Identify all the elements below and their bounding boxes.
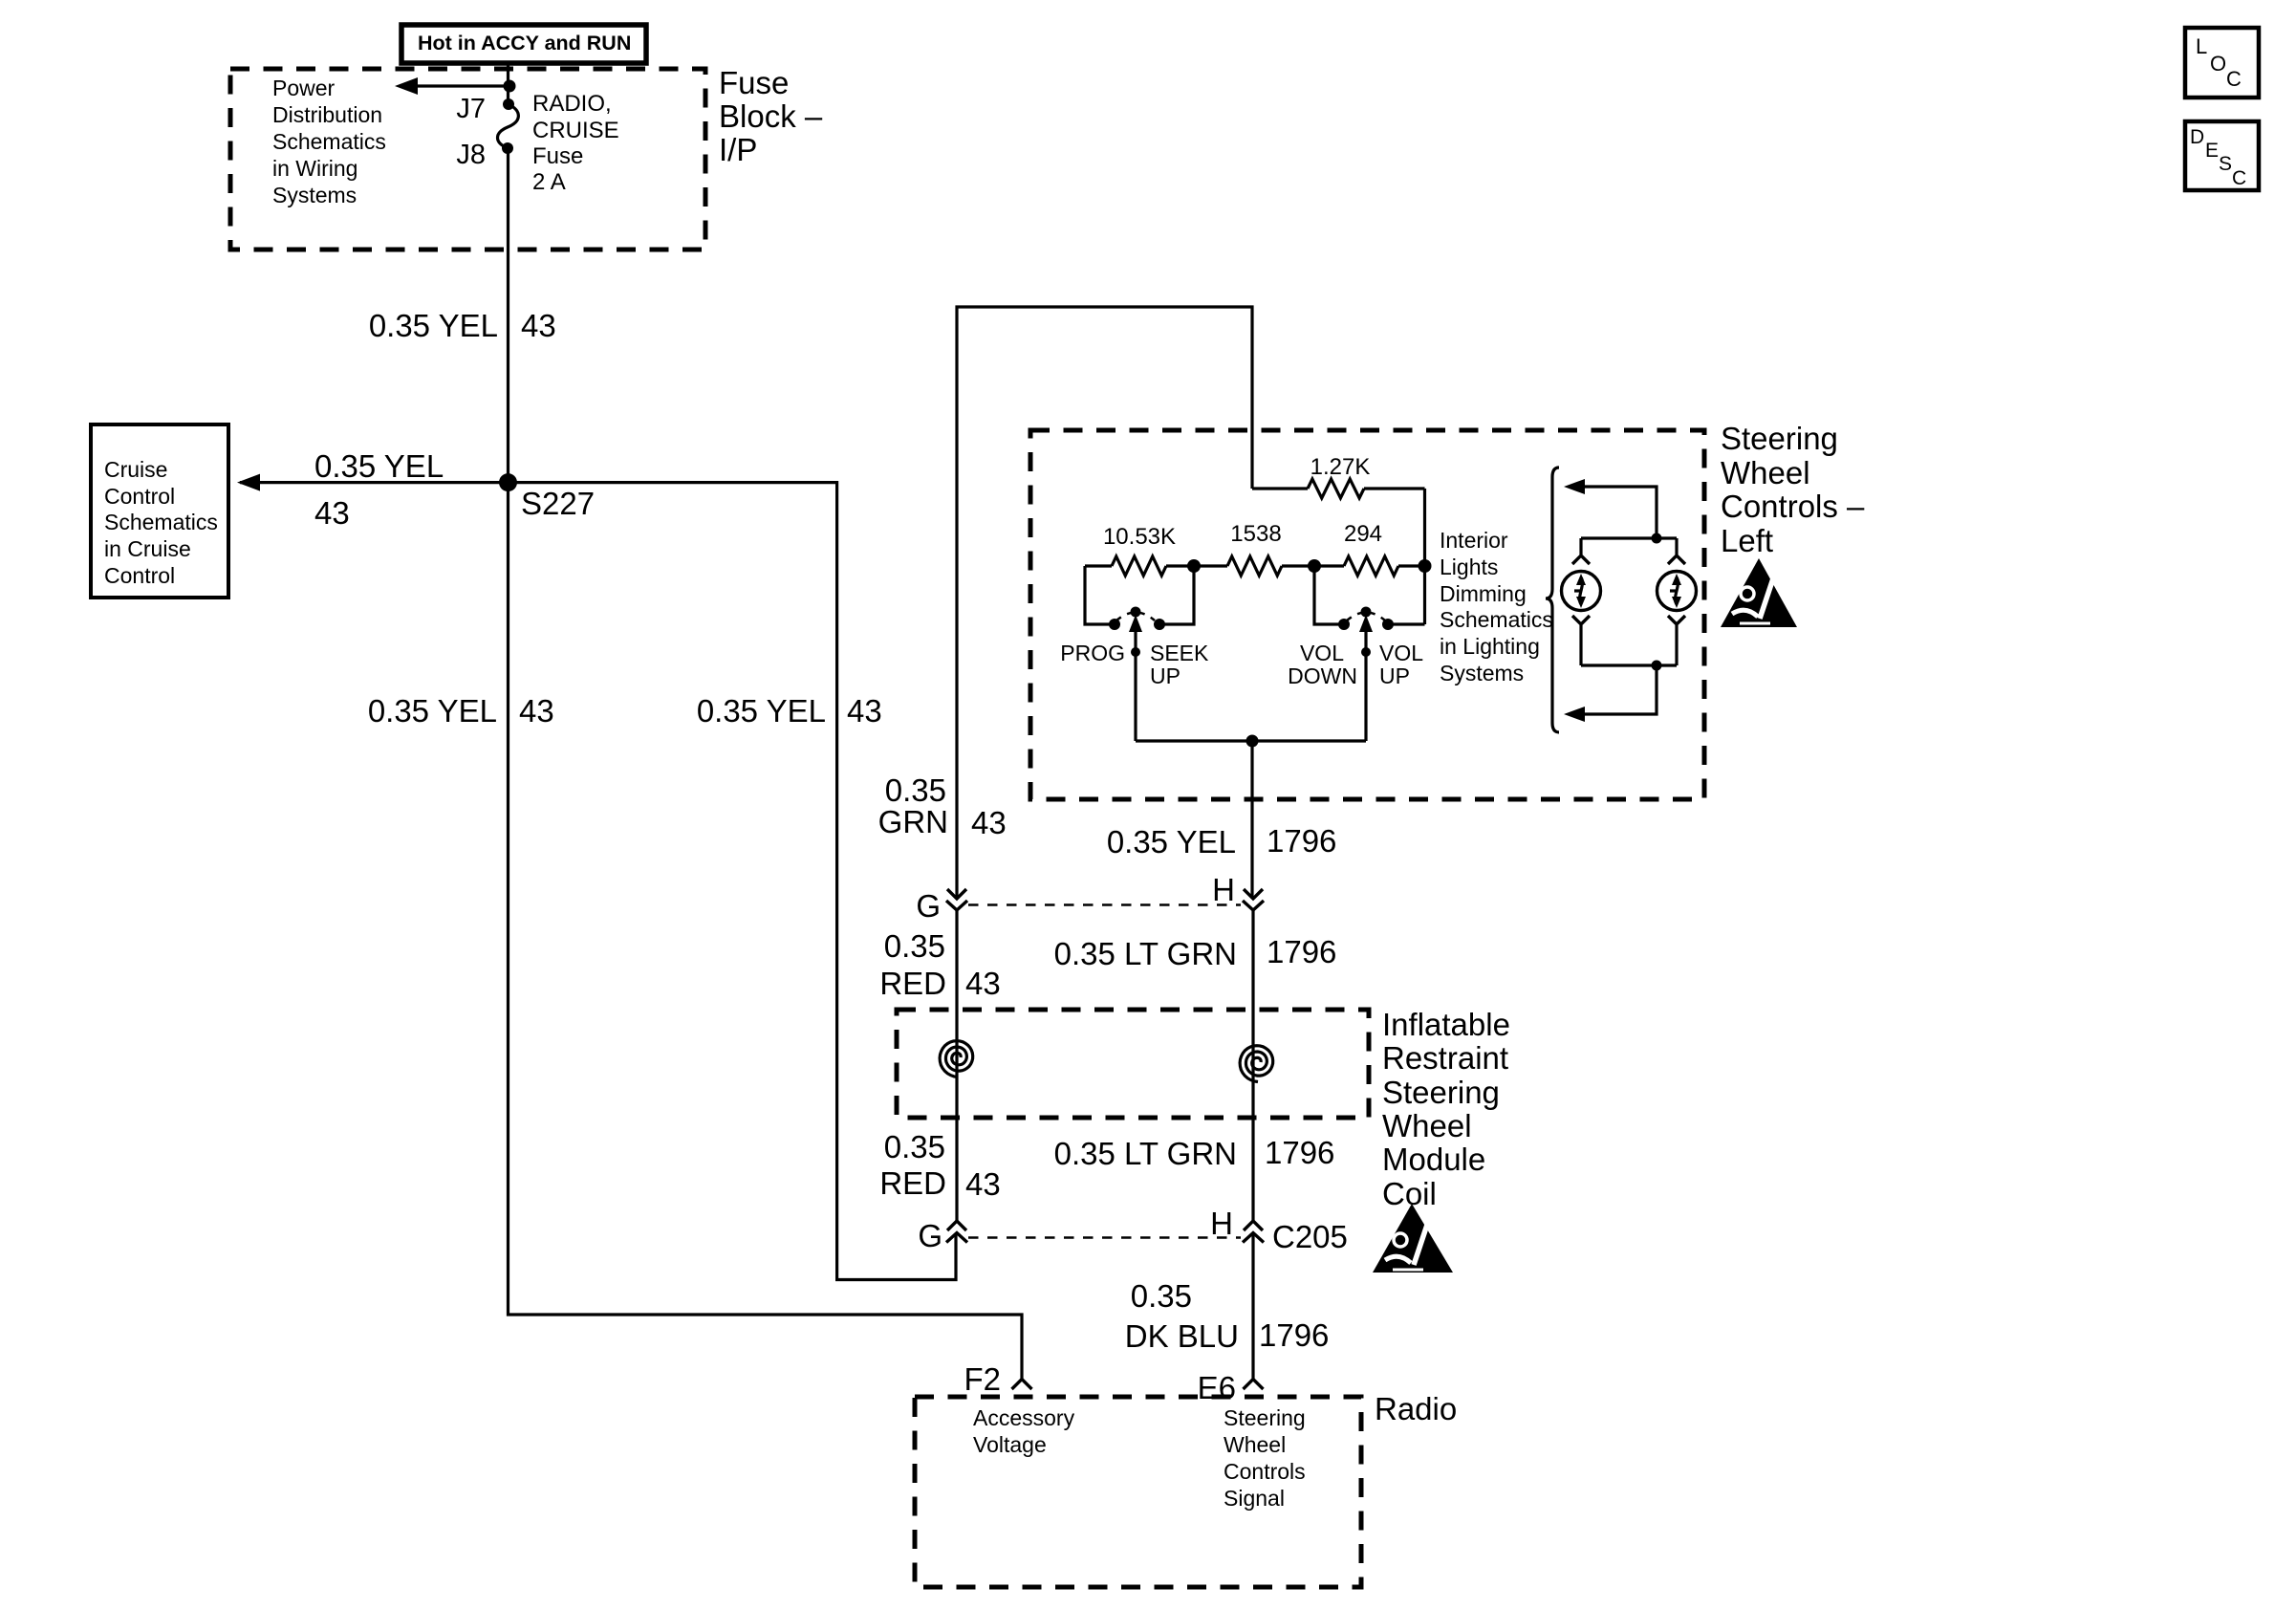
svg-text:Lights: Lights (1440, 555, 1498, 579)
svg-text:Wheel: Wheel (1721, 455, 1810, 490)
svg-text:Distribution: Distribution (272, 102, 382, 127)
svg-text:1796: 1796 (1267, 934, 1336, 969)
svg-text:UP: UP (1150, 664, 1180, 688)
svg-text:Interior: Interior (1440, 528, 1508, 553)
svg-text:43: 43 (971, 805, 1007, 840)
svg-text:Wheel: Wheel (1382, 1108, 1472, 1143)
svg-text:PROG: PROG (1060, 641, 1125, 665)
svg-text:0.35 YEL: 0.35 YEL (697, 693, 826, 729)
svg-text:Hot in ACCY and RUN: Hot in ACCY and RUN (418, 32, 631, 54)
svg-text:F2: F2 (964, 1361, 1001, 1397)
svg-text:SEEK: SEEK (1150, 641, 1209, 665)
svg-text:RED: RED (879, 1165, 946, 1201)
svg-text:0.35: 0.35 (884, 1129, 945, 1164)
svg-text:1.27K: 1.27K (1310, 454, 1371, 480)
svg-text:Systems: Systems (272, 183, 357, 207)
svg-text:C: C (2232, 167, 2246, 189)
svg-text:43: 43 (965, 966, 1001, 1001)
svg-text:RADIO,: RADIO, (532, 91, 612, 117)
svg-text:Module: Module (1382, 1142, 1485, 1177)
svg-text:Accessory: Accessory (973, 1405, 1075, 1430)
svg-text:E: E (2205, 140, 2219, 162)
svg-text:Steering: Steering (1224, 1405, 1306, 1430)
svg-text:10.53K: 10.53K (1103, 524, 1176, 550)
svg-text:S: S (2219, 153, 2232, 175)
svg-text:Power: Power (272, 76, 336, 100)
svg-text:Fuse: Fuse (532, 143, 583, 169)
svg-text:Fuse: Fuse (719, 65, 789, 100)
svg-text:H: H (1212, 872, 1235, 907)
svg-text:0.35: 0.35 (885, 772, 946, 808)
svg-text:L: L (2196, 34, 2207, 58)
svg-text:D: D (2190, 126, 2204, 148)
svg-text:DOWN: DOWN (1288, 664, 1357, 688)
svg-text:0.35 YEL: 0.35 YEL (1107, 824, 1236, 859)
svg-text:RED: RED (879, 966, 946, 1001)
svg-text:0.35 YEL: 0.35 YEL (368, 693, 497, 729)
svg-text:Control: Control (104, 563, 175, 588)
svg-text:C205: C205 (1272, 1219, 1348, 1254)
svg-text:Controls –: Controls – (1721, 489, 1865, 524)
svg-text:1796: 1796 (1267, 823, 1336, 859)
svg-text:Control: Control (104, 484, 175, 509)
svg-text:1796: 1796 (1265, 1135, 1334, 1170)
svg-text:C: C (2226, 67, 2242, 91)
svg-text:Steering: Steering (1382, 1075, 1500, 1110)
svg-text:S227: S227 (521, 486, 595, 521)
svg-text:0.35 YEL: 0.35 YEL (314, 448, 444, 484)
svg-text:43: 43 (965, 1166, 1001, 1202)
svg-text:1538: 1538 (1230, 521, 1281, 547)
svg-text:J7: J7 (456, 94, 486, 124)
svg-text:1796: 1796 (1259, 1317, 1329, 1353)
svg-text:in Lighting: in Lighting (1440, 634, 1540, 659)
svg-text:Wheel: Wheel (1224, 1432, 1286, 1457)
svg-text:0.35 YEL: 0.35 YEL (369, 308, 498, 343)
svg-text:0.35 LT GRN: 0.35 LT GRN (1054, 936, 1237, 971)
svg-text:in Wiring: in Wiring (272, 156, 357, 181)
svg-text:H: H (1210, 1206, 1233, 1241)
svg-text:UP: UP (1379, 664, 1410, 688)
svg-text:E6: E6 (1198, 1370, 1236, 1405)
svg-text:GRN: GRN (878, 804, 948, 839)
svg-text:Cruise: Cruise (104, 457, 167, 482)
svg-text:Controls: Controls (1224, 1459, 1306, 1484)
svg-text:Dimming: Dimming (1440, 581, 1527, 606)
svg-text:CRUISE: CRUISE (532, 118, 619, 143)
svg-text:2 A: 2 A (532, 169, 566, 195)
svg-text:in Cruise: in Cruise (104, 536, 191, 561)
svg-text:43: 43 (519, 693, 554, 729)
svg-text:Coil: Coil (1382, 1176, 1437, 1211)
svg-text:Block –: Block – (719, 98, 823, 134)
svg-text:Inflatable: Inflatable (1382, 1007, 1510, 1042)
svg-text:Schematics: Schematics (272, 129, 386, 154)
svg-text:Left: Left (1721, 523, 1773, 558)
svg-text:DK BLU: DK BLU (1125, 1318, 1239, 1354)
svg-text:43: 43 (314, 495, 350, 531)
svg-text:0.35: 0.35 (884, 928, 945, 964)
svg-text:G: G (916, 888, 941, 924)
svg-text:Restraint: Restraint (1382, 1040, 1508, 1076)
svg-text:Schematics: Schematics (104, 510, 218, 534)
svg-text:43: 43 (521, 308, 556, 343)
svg-text:J8: J8 (456, 140, 486, 170)
svg-text:Schematics: Schematics (1440, 607, 1553, 632)
svg-text:G: G (918, 1218, 942, 1253)
svg-text:Signal: Signal (1224, 1486, 1285, 1511)
svg-text:Radio: Radio (1375, 1391, 1457, 1426)
svg-text:Systems: Systems (1440, 661, 1524, 685)
svg-text:VOL: VOL (1300, 641, 1344, 665)
svg-text:Steering: Steering (1721, 421, 1838, 456)
svg-text:294: 294 (1344, 521, 1382, 547)
svg-text:43: 43 (847, 693, 882, 729)
svg-text:Voltage: Voltage (973, 1432, 1047, 1457)
svg-text:0.35 LT GRN: 0.35 LT GRN (1054, 1136, 1237, 1171)
svg-text:O: O (2210, 52, 2226, 76)
svg-text:VOL: VOL (1379, 641, 1423, 665)
svg-text:0.35: 0.35 (1131, 1278, 1192, 1314)
svg-text:I/P: I/P (719, 132, 757, 167)
